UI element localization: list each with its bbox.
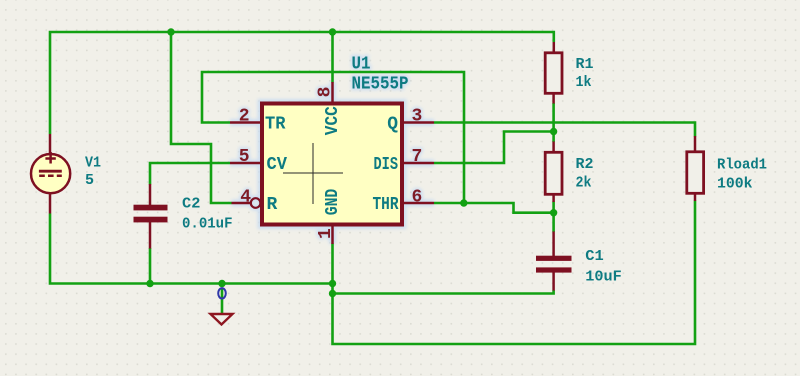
R1 bottom pin — [552, 93, 555, 104]
C1 bottom pin — [552, 272, 555, 291]
voltage source V1 — [31, 152, 70, 193]
svg-text:7: 7 — [412, 147, 423, 167]
Rload1 top pin — [694, 136, 697, 152]
U1 pin 4 inversion bubble — [251, 198, 261, 208]
svg-text:R1: R1 — [576, 56, 594, 73]
svg-text:5: 5 — [85, 172, 94, 189]
wire THR pin6 jog to R2-C1 junction — [434, 203, 554, 213]
wire DIS pin7 jog to R1-R2 junction — [434, 132, 554, 164]
wire CV pin5 to C2 top — [150, 163, 230, 185]
svg-text:8: 8 — [316, 87, 336, 98]
node junction top rail / VCC drop — [329, 28, 336, 35]
wire ground rail B to C1 bottom — [333, 290, 554, 294]
wire Q pin3 to Rload1 top — [434, 123, 695, 137]
svg-text:Q: Q — [387, 115, 398, 135]
node junction ground symbol / rail A — [218, 280, 225, 287]
svg-text:GND: GND — [323, 189, 343, 216]
wire reset pin4 route from top rail — [171, 32, 232, 203]
svg-text:4: 4 — [240, 188, 251, 208]
node junction top rail / reset route — [167, 28, 174, 35]
R2 bottom pin — [552, 195, 555, 203]
resistor R2 — [545, 152, 562, 194]
U1 pin 4 lead — [232, 202, 251, 205]
wire ground symbol stem — [221, 288, 224, 314]
svg-text:C2: C2 — [182, 196, 200, 213]
svg-text:1: 1 — [316, 228, 336, 239]
U1 pin 5 lead — [230, 162, 261, 165]
wire VCC pin8 drop from top rail — [331, 32, 334, 83]
wire R1 bottom to R2 top — [552, 103, 555, 142]
U1 selection halo — [230, 55, 434, 245]
wire GND pin1 drop, bottom rail, Rload1 bottom riser — [333, 201, 696, 345]
wire R2 bottom to C1 top — [552, 202, 555, 233]
svg-text:V1: V1 — [85, 155, 101, 172]
svg-text:2: 2 — [239, 107, 250, 127]
node junction GND drop / rail A — [329, 280, 336, 287]
node junction R2/C1/THR — [550, 209, 557, 216]
svg-text:THR: THR — [373, 195, 399, 215]
svg-text:R: R — [267, 195, 278, 215]
svg-text:R2: R2 — [576, 156, 594, 173]
svg-text:NE555P: NE555P — [352, 75, 409, 95]
svg-text:TR: TR — [265, 115, 286, 135]
U1 pin 6 lead — [403, 202, 434, 205]
U1 pin 8 lead — [331, 82, 334, 102]
ground triangle symbol — [211, 314, 233, 325]
node junction R1/R2/DIS — [550, 128, 557, 135]
svg-text:5: 5 — [239, 147, 250, 167]
R1 top pin — [553, 42, 556, 53]
cursor cross — [283, 143, 343, 204]
svg-text:Rload1: Rload1 — [717, 156, 767, 173]
svg-text:U1: U1 — [352, 55, 371, 75]
U1 pin 7 lead — [403, 162, 434, 165]
svg-text:VCC: VCC — [323, 106, 343, 135]
wire C2 bottom to ground rail — [149, 248, 152, 284]
R2 top pin — [552, 142, 555, 153]
node junction GND drop / rail B — [329, 290, 336, 297]
C2 bottom pin — [149, 222, 152, 249]
U1 pin 1 lead — [331, 226, 334, 244]
svg-text:2k: 2k — [576, 175, 592, 192]
resistor Rload1 — [687, 152, 704, 194]
Rload1 bottom pin — [694, 193, 697, 201]
ground unconnected ellipse — [218, 288, 226, 298]
C2 top pin — [149, 184, 152, 206]
U1 pin 3 lead — [403, 121, 434, 124]
svg-text:10uF: 10uF — [585, 269, 622, 286]
svg-text:CV: CV — [267, 155, 288, 175]
svg-text:0.01uF: 0.01uF — [182, 216, 233, 233]
wire TR pin2 route to THR junction — [202, 72, 464, 203]
svg-text:6: 6 — [412, 188, 423, 208]
node junction C2 bottom / rail A — [146, 280, 153, 287]
U1 pin 2 lead — [230, 121, 261, 124]
IC U1 NE555P body — [262, 104, 402, 225]
svg-text:3: 3 — [412, 107, 423, 127]
svg-text:1k: 1k — [576, 74, 592, 91]
svg-text:DIS: DIS — [374, 155, 399, 175]
wire top rail from V1 to R1 — [50, 32, 554, 134]
svg-text:100k: 100k — [717, 176, 753, 193]
capacitor C2 plates — [134, 205, 168, 223]
V1 top pin — [49, 134, 52, 155]
C1 top pin — [552, 232, 555, 257]
resistor R1 — [545, 53, 562, 94]
V1 bottom pin — [49, 193, 52, 214]
capacitor C1 plates — [536, 256, 572, 273]
wire V1 bottom and ground rail A — [50, 214, 333, 284]
svg-text:C1: C1 — [585, 248, 604, 265]
node junction TR-THR tie — [460, 199, 467, 206]
component pin leads (dark red) — [50, 42, 695, 291]
